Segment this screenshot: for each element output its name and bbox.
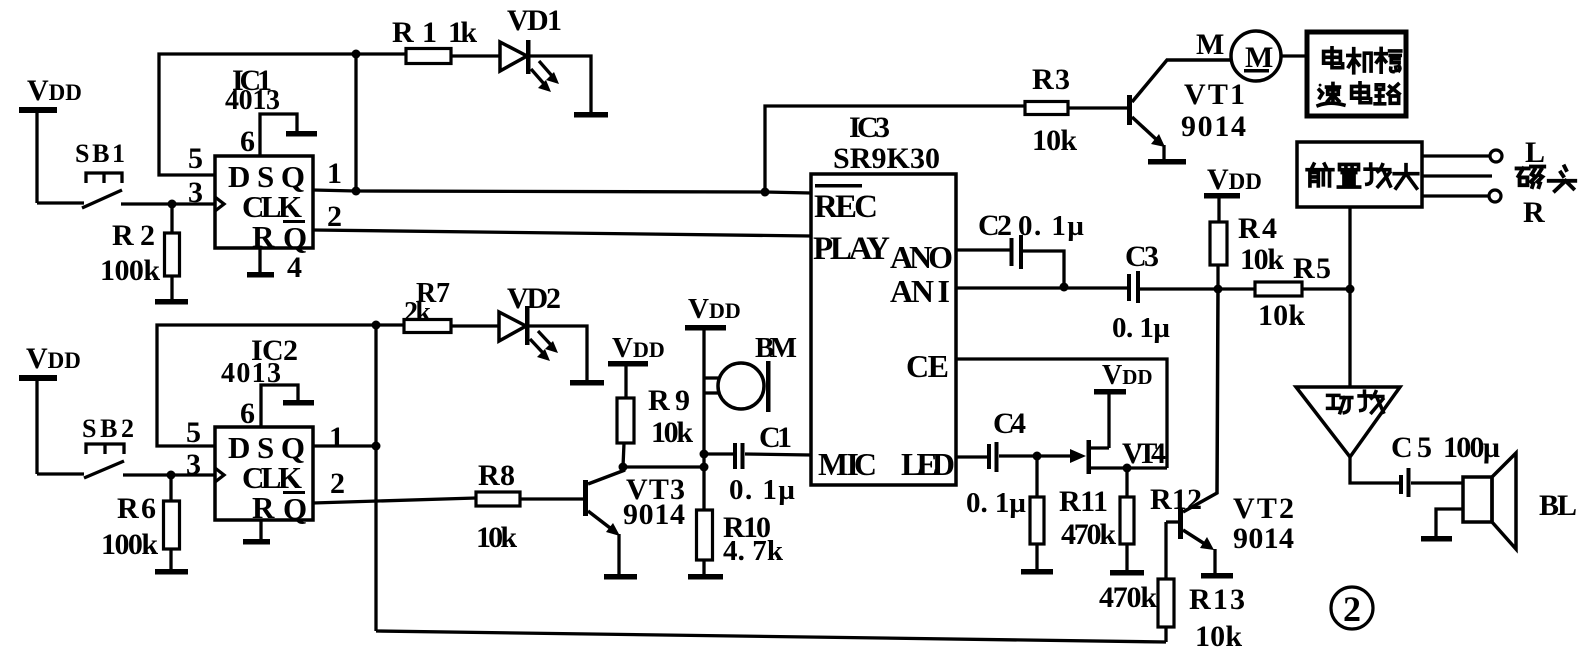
svg-text:R8: R8 [478, 459, 515, 492]
power VDD rail (VT4) [1094, 360, 1153, 448]
wire VD2 cathode to ground [529, 326, 587, 380]
svg-text:R9: R9 [648, 384, 690, 417]
resistor R6 [164, 475, 180, 569]
svg-text:SB2: SB2 [82, 414, 134, 443]
wire ANI to C3 [956, 286, 1128, 289]
power VDD rail (R4) [1204, 163, 1262, 222]
svg-text:L: L [1525, 136, 1545, 169]
svg-text:5: 5 [188, 142, 203, 175]
box motor speed control (dian ji wen su dian lu) [1307, 32, 1406, 116]
ground (IC2 pin 4) [243, 539, 270, 545]
svg-text:0. 1µ: 0. 1µ [966, 487, 1026, 519]
LED VD2 [499, 306, 558, 361]
svg-text:VD1: VD1 [507, 4, 562, 37]
amplifier (gong fang) [1296, 387, 1400, 457]
node top rail / R1 junction [352, 50, 361, 59]
ground (VD2) [570, 380, 604, 386]
wire amp output [1350, 457, 1400, 483]
ground (R11) [1021, 569, 1053, 575]
wire REC node up to R3 rail [765, 106, 1025, 192]
svg-text:VDD: VDD [1102, 360, 1153, 391]
node VT3 collector junction [619, 463, 628, 472]
svg-text:C4: C4 [993, 407, 1026, 440]
node C2/ANI junction [1060, 283, 1069, 292]
wire IC2 pin 1 (Q) to junction [313, 444, 378, 447]
wire CE to VT4 source rail [956, 359, 1167, 468]
svg-text:C2: C2 [978, 209, 1012, 242]
svg-text:10k: 10k [476, 521, 517, 554]
transistor VT2 (9014) [1166, 289, 1218, 573]
wire VD1 cathode to ground [530, 56, 591, 112]
node Q1 junction [352, 187, 361, 196]
node mic/C1 junction [700, 450, 709, 459]
svg-text:2: 2 [330, 467, 345, 500]
figure number (2) [1331, 587, 1373, 629]
wire bottom bus to R13 [376, 631, 1166, 642]
svg-text:REC: REC [814, 189, 878, 225]
svg-text:R: R [1523, 196, 1545, 229]
svg-text:10k: 10k [1240, 243, 1284, 276]
svg-text:2k: 2k [404, 297, 431, 328]
capacitor C1 [704, 443, 811, 469]
svg-text:VDD: VDD [688, 293, 741, 325]
wire IC1 pin 6 to ground [260, 114, 297, 156]
svg-text:1: 1 [327, 157, 342, 190]
svg-text:VD2: VD2 [507, 282, 561, 315]
svg-text:2: 2 [1343, 589, 1361, 629]
transistor VT3 (9014) [583, 470, 625, 574]
terminal R (open circle) [1489, 190, 1501, 202]
pin REC label (with overline) [814, 184, 878, 225]
svg-text:BL: BL [1539, 489, 1577, 522]
wire VDD to SB1 [37, 201, 84, 204]
ground (IC1 pin 6) [286, 131, 317, 137]
wire preamp terminal L [1422, 154, 1489, 157]
transistor VT1 (9014) [1127, 60, 1231, 159]
svg-text:PLAY: PLAY [813, 231, 890, 267]
resistor R11 [1030, 456, 1044, 569]
wire preamp terminal R [1422, 194, 1488, 197]
capacitor C3 [1127, 271, 1255, 303]
svg-text:0. 1µ: 0. 1µ [1112, 312, 1170, 344]
svg-text:3: 3 [186, 448, 201, 481]
resistor R1 [406, 49, 499, 64]
ground (IC1 pin 4) [247, 272, 274, 278]
svg-text:R5: R5 [1293, 252, 1331, 285]
svg-text:6: 6 [240, 397, 255, 430]
wire node to amplifier [1348, 289, 1351, 387]
wire collector node to mic node [623, 465, 704, 468]
svg-text:CE: CE [906, 348, 949, 384]
junction node (SB1/R2/CLK1) [168, 200, 177, 209]
capacitor C5 [1399, 468, 1463, 497]
ground (VT3 emitter) [604, 574, 637, 580]
terminal L (open circle) [1490, 150, 1502, 162]
transistor VT4 (FET) [1087, 440, 1168, 474]
svg-text:6: 6 [240, 125, 255, 158]
svg-text:4. 7k: 4. 7k [723, 535, 784, 567]
svg-text:10k: 10k [651, 416, 693, 449]
power VDD rail (microphone) [685, 293, 741, 510]
svg-text:IC3: IC3 [849, 111, 890, 144]
svg-text:3: 3 [188, 176, 203, 209]
resistor R5 [1255, 282, 1350, 296]
wire VDD to SB2 [37, 472, 84, 475]
wire SB2 to IC2 pin 3 [123, 473, 215, 476]
svg-text:R4: R4 [1238, 212, 1277, 245]
flip-flop IC1 (4013) body [215, 156, 313, 255]
resistor R9 [617, 398, 634, 467]
wire SB1 to IC1 pin 3 [121, 202, 215, 205]
svg-text:VDD: VDD [612, 332, 665, 364]
capacitor C2 [956, 235, 1064, 287]
wire IC1 pin 4 to ground [258, 248, 261, 272]
wire REC node to IC3 [765, 192, 811, 193]
wire IC2 pin 5 feedback to rail [157, 325, 404, 446]
node R5/preamp/amp junction [1346, 285, 1355, 294]
svg-text:ANO: ANO [890, 239, 953, 275]
svg-text:M: M [1196, 28, 1224, 61]
ground (VD1) [574, 112, 608, 118]
resistor R12 [1120, 468, 1134, 570]
ground (VT1 emitter) [1148, 159, 1186, 165]
svg-text:R2: R2 [112, 219, 155, 252]
wire IC1 pin 1 (Q) to REC node [313, 190, 765, 192]
power VDD rail (top-left, SB1) [19, 74, 82, 203]
power VDD rail (R9) [608, 332, 665, 398]
microphone BM [704, 361, 771, 412]
node C4/R11 junction [1033, 452, 1042, 461]
svg-text:C1: C1 [759, 421, 792, 454]
svg-text:100µ: 100µ [1443, 431, 1500, 464]
node REC junction [761, 188, 770, 197]
ground (R2) [155, 299, 188, 305]
node Q2 junction [372, 442, 381, 451]
speaker BL [1463, 453, 1516, 549]
resistor R3 [1025, 102, 1127, 115]
label magnetic head (ci tou) [1517, 166, 1576, 191]
ground (R6) [155, 569, 188, 575]
switch SB1 [75, 139, 125, 208]
svg-text:R3: R3 [1032, 63, 1070, 96]
box preamplifier (qian zhi fang da) [1297, 142, 1422, 207]
node VT4 source / R12 junction [1123, 464, 1132, 473]
svg-text:100k: 100k [100, 254, 160, 287]
svg-text:Q: Q [283, 491, 307, 526]
svg-text:1k: 1k [448, 16, 477, 49]
wire IC1 pin 2 to IC3 PLAY [313, 230, 811, 236]
wire preamp to audio node [1348, 207, 1351, 289]
svg-text:4: 4 [287, 251, 302, 284]
svg-text:9014: 9014 [623, 498, 685, 531]
power VDD rail (SB2) [19, 342, 81, 474]
svg-text:R6: R6 [117, 492, 156, 525]
svg-text:VT2: VT2 [1233, 492, 1294, 525]
svg-text:SR9K30: SR9K30 [833, 142, 940, 175]
wire IC2 pin 6 to ground [261, 385, 298, 427]
svg-text:9014: 9014 [1233, 522, 1294, 555]
svg-text:M IC: M IC [818, 446, 877, 482]
svg-text:10k: 10k [1032, 124, 1077, 157]
svg-text:AN I: AN I [890, 273, 950, 309]
resistor R13 [1158, 522, 1174, 642]
junction node (SB2/R6/CLK2) [167, 471, 176, 480]
node mic/R10 junction [700, 463, 709, 472]
svg-text:100k: 100k [101, 528, 158, 561]
wire LED to C4 [956, 455, 988, 458]
svg-text:R: R [252, 490, 275, 525]
wire IC2 pin 2 to R8 [313, 498, 476, 503]
wire IC1 pin 5 feedback to top rail [159, 54, 406, 175]
ground (R10) [688, 574, 723, 580]
svg-text:4013: 4013 [225, 85, 280, 116]
svg-text:C5: C5 [1391, 431, 1432, 464]
svg-text:470k: 470k [1061, 518, 1116, 551]
ground (speaker) [1421, 536, 1452, 542]
svg-text:10k: 10k [1258, 299, 1305, 332]
switch SB2 [82, 414, 134, 478]
wire vertical junction to Q1 line [354, 54, 357, 191]
LED VD1 [500, 40, 559, 92]
node rail / R7 junction [372, 321, 381, 330]
svg-text:R12: R12 [1150, 483, 1202, 516]
svg-text:0. 1µ: 0. 1µ [1018, 210, 1084, 242]
svg-text:LED: LED [901, 446, 955, 482]
resistor R4 [1210, 222, 1227, 289]
svg-text:5: 5 [186, 416, 201, 449]
svg-text:9014: 9014 [1181, 110, 1246, 143]
svg-text:2: 2 [327, 200, 342, 233]
capacitor C4 [987, 442, 1086, 472]
ground (VT2 emitter) [1201, 573, 1233, 579]
resistor R10 [697, 510, 713, 574]
wire speaker to ground [1436, 509, 1463, 536]
wire preamp terminal middle [1422, 174, 1492, 177]
svg-text:R: R [252, 219, 275, 254]
wire vertical Q2 rail down to bottom bus [374, 325, 377, 631]
svg-text:SB1: SB1 [75, 139, 125, 168]
resistor R8 [476, 492, 583, 506]
wire IC2 pin 4 to ground [259, 520, 262, 539]
ground (R12) [1110, 570, 1144, 576]
svg-text:1: 1 [329, 421, 344, 454]
svg-text:Q: Q [283, 220, 307, 255]
svg-text:R13: R13 [1189, 583, 1245, 616]
svg-text:R11: R11 [1059, 485, 1108, 518]
ground (IC2 pin 6) [283, 400, 314, 406]
flip-flop IC2 (4013) body [215, 427, 313, 526]
svg-text:0. 1µ: 0. 1µ [729, 474, 795, 506]
svg-text:10k: 10k [1195, 620, 1242, 653]
svg-text:C3: C3 [1125, 240, 1159, 273]
svg-text:470k: 470k [1099, 581, 1157, 614]
svg-text:BM: BM [755, 332, 797, 364]
svg-text:VT1: VT1 [1184, 78, 1245, 111]
IC3 chip SR9K30 body [811, 174, 956, 485]
node R4/C3/VT2 junction [1214, 285, 1223, 294]
resistor R7 [404, 320, 499, 333]
motor M [1231, 31, 1307, 81]
resistor R2 [165, 204, 180, 299]
